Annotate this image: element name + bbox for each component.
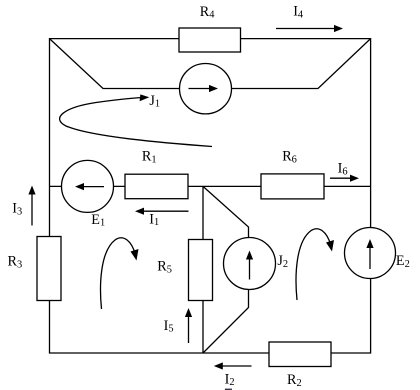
- svg-text:I3: I3: [12, 201, 22, 218]
- svg-text:E2: E2: [396, 253, 410, 270]
- svg-text:J2: J2: [277, 253, 288, 270]
- svg-text:R2: R2: [287, 372, 302, 389]
- svg-text:R1: R1: [142, 149, 157, 166]
- svg-text:R4: R4: [200, 4, 215, 21]
- svg-text:I4: I4: [293, 4, 304, 21]
- svg-text:E1: E1: [91, 212, 105, 229]
- svg-text:I2: I2: [225, 371, 235, 388]
- svg-text:I6: I6: [338, 161, 348, 178]
- svg-text:R3: R3: [8, 254, 23, 271]
- svg-text:I5: I5: [164, 318, 174, 335]
- svg-text:R6: R6: [282, 149, 297, 166]
- svg-text:I1: I1: [149, 211, 159, 228]
- svg-text:J1: J1: [149, 93, 160, 110]
- svg-text:R5: R5: [157, 259, 172, 276]
